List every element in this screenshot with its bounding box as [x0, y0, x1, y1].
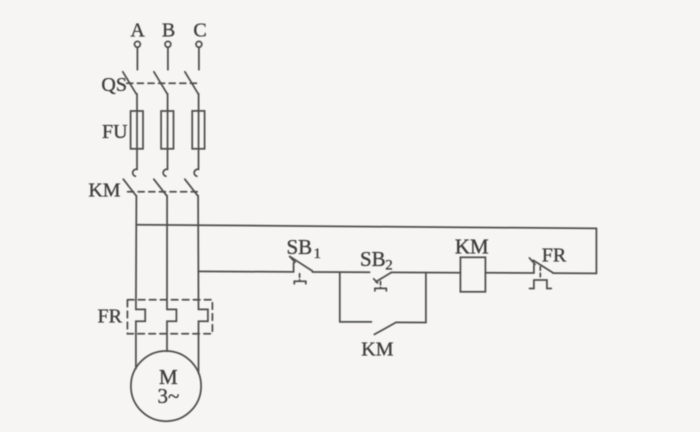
svg-text:1: 1 [314, 246, 322, 262]
svg-text:KM: KM [88, 180, 120, 202]
svg-text:SB: SB [360, 247, 386, 271]
svg-text:FU: FU [102, 121, 128, 143]
svg-text:C: C [193, 19, 206, 41]
svg-text:FR: FR [98, 306, 123, 328]
svg-text:B: B [162, 19, 175, 41]
svg-text:3~: 3~ [157, 384, 179, 408]
svg-text:KM: KM [455, 234, 489, 258]
svg-text:FR: FR [542, 244, 567, 266]
svg-text:A: A [130, 19, 145, 41]
svg-text:SB: SB [287, 235, 313, 259]
svg-text:2: 2 [385, 258, 393, 274]
svg-text:QS: QS [101, 74, 127, 96]
svg-text:KM: KM [361, 338, 393, 360]
